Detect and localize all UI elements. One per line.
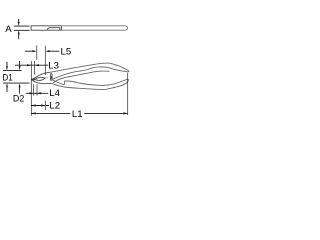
D1 top extension line: [3, 69, 22, 71]
D2 upper shaft: [19, 61, 21, 67]
A up arrowhead: [18, 30, 20, 34]
svg-text:L5: L5: [61, 46, 72, 57]
svg-text:L1: L1: [72, 109, 83, 120]
jaw split line to joint: [45, 77, 48, 79]
L2 dimension line: [32, 105, 49, 107]
joint slot: [50, 74, 52, 81]
joint slot center: [50, 76, 52, 79]
L5 right arrowhead: [45, 50, 49, 52]
side view joint bar: [60, 26, 62, 30]
A bottom extension line: [14, 29, 30, 31]
A down arrowhead: [18, 22, 20, 26]
A up arrow shaft: [18, 34, 20, 39]
D2 down arrowhead top: [19, 66, 21, 70]
A top extension line: [14, 25, 30, 27]
L1 left arrowhead: [32, 112, 36, 114]
jaw tip lips: [32, 79, 35, 80]
svg-text:L2: L2: [49, 101, 60, 112]
upper handle: [51, 63, 129, 79]
side view head outline (dark part): [31, 26, 61, 30]
lower handle grip: [64, 79, 128, 89]
L2 left arrowhead: [32, 104, 36, 106]
spring between handles: [53, 71, 109, 83]
A down arrow shaft: [18, 19, 20, 23]
L1 dimension line right part: [84, 112, 127, 114]
D1 up arrowhead: [6, 83, 8, 87]
svg-text:L3: L3: [48, 60, 59, 71]
side view handle outline (lighter): [62, 26, 128, 30]
L1 dimension line left part: [32, 112, 71, 114]
side view inner step line: [47, 28, 60, 30]
ext line joint x=45.3 lower: [44, 101, 46, 110]
head bottom edge: [31, 80, 51, 84]
ext line x=34.6: [34, 61, 36, 75]
L3 left arrowhead: [27, 64, 31, 66]
svg-text:A: A: [5, 24, 12, 35]
ext line right end x=127.7: [127, 73, 129, 115]
svg-text:D1: D1: [2, 73, 12, 84]
ext line x=36.8: [36, 45, 38, 60]
svg-text:D2: D2: [13, 94, 24, 105]
cutting edge lens: [35, 77, 45, 80]
D1/D2 shared bottom extension line: [3, 82, 30, 84]
L3 right arrowhead: [35, 64, 39, 66]
lower jaw tang top edge: [53, 80, 65, 85]
L2 right arrowhead: [41, 104, 45, 106]
L3 dimension line: [15, 64, 48, 66]
L4 right arrowhead: [37, 92, 41, 94]
svg-text:L4: L4: [49, 88, 60, 99]
L4 left arrowhead: [29, 92, 33, 94]
D2 lower shaft: [19, 87, 21, 93]
L5 left arrowhead: [33, 50, 37, 52]
tang bottom edge: [52, 83, 65, 87]
head top edge: [31, 72, 50, 79]
L4 dimension line: [26, 92, 49, 94]
ext line x=37.0 (L4 right): [36, 84, 38, 96]
D2 up arrowhead: [19, 83, 21, 87]
D1 down arrow shaft: [6, 62, 8, 67]
D1 up arrow shaft: [6, 87, 8, 92]
ext line joint x=45.3 upper: [44, 46, 46, 75]
L1 right arrowhead: [123, 112, 127, 114]
D1 down arrowhead: [6, 66, 8, 70]
ext line head tip x=31.3: [30, 61, 32, 116]
lower grip collar: [63, 81, 65, 85]
ext line x=33.6 (L4 left): [33, 84, 35, 96]
L5 left tail: [25, 50, 33, 52]
L5 right tail: [49, 50, 59, 52]
